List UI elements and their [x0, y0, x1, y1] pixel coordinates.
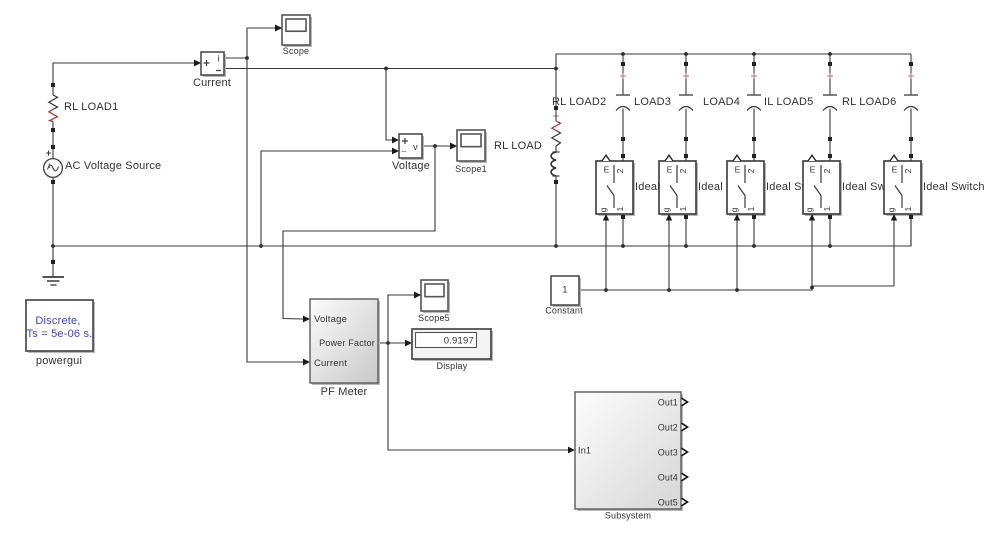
wire gate feed SW4	[811, 221, 813, 287]
node gate junction 4	[810, 286, 814, 290]
capacitor branch C2	[684, 52, 688, 56]
svg-text:Ideal Switch: Ideal Switch	[923, 181, 985, 193]
wire node down to Voltage + input	[386, 69, 393, 141]
wire v output down to PF Meter Voltage input	[283, 146, 435, 319]
ideal switch block SW2	[661, 163, 698, 216]
wire source-top to Current + input	[53, 63, 195, 83]
resistor RL LOAD1	[51, 83, 55, 87]
wire gate feed SW3	[736, 221, 738, 291]
svg-text:Scope: Scope	[283, 46, 310, 56]
svg-text:Voltage: Voltage	[392, 160, 430, 172]
svg-text:1: 1	[678, 206, 688, 211]
svg-text:Voltage: Voltage	[314, 314, 347, 325]
svg-text:LOAD3: LOAD3	[634, 96, 671, 108]
svg-text:IL LOAD5: IL LOAD5	[764, 96, 814, 108]
scope block Scope5	[423, 282, 450, 313]
svg-text:Display: Display	[437, 361, 468, 371]
svg-text:AC Voltage Source: AC Voltage Source	[65, 160, 161, 172]
wire PF output up to Scope5	[388, 295, 415, 343]
svg-text:Scope5: Scope5	[418, 313, 450, 323]
svg-text:2: 2	[678, 168, 688, 173]
wire PF Meter output to Display	[378, 342, 406, 344]
node ground junction	[51, 244, 55, 248]
svg-text:Out1: Out1	[658, 398, 678, 408]
wire Constant output gate bus	[579, 286, 894, 290]
wire Voltage - input to bottom bus	[261, 151, 399, 246]
svg-text:E: E	[604, 165, 610, 175]
svg-text:1: 1	[822, 206, 832, 211]
svg-text:Current: Current	[193, 77, 231, 89]
PF Meter block	[312, 301, 380, 385]
svg-text:Subsystem: Subsystem	[605, 511, 651, 521]
AC Voltage Source V1	[52, 132, 54, 145]
svg-text:E: E	[667, 165, 673, 175]
node voltage tap junction	[384, 67, 388, 71]
svg-text:Ts = 5e-06 s.: Ts = 5e-06 s.	[27, 328, 93, 340]
scope block Scope	[284, 17, 312, 47]
svg-text:RL LOAD2: RL LOAD2	[552, 96, 606, 108]
node RL LOAD2 top junction	[554, 67, 558, 71]
svg-text:Current: Current	[314, 358, 347, 369]
svg-text:1: 1	[562, 285, 567, 295]
wire main bottom bus	[53, 219, 911, 246]
wire top capacitor bus	[556, 54, 911, 69]
wire bus to ground stem	[52, 246, 54, 260]
wire node down to PF Meter Current input	[247, 58, 304, 362]
wire Voltage v output to Scope1	[422, 145, 451, 147]
svg-text:g: g	[729, 207, 739, 212]
wire Current i output to node	[224, 57, 247, 59]
svg-text:E: E	[892, 165, 898, 175]
ideal switch block SW4	[805, 163, 842, 216]
wire gate feed SW1	[605, 221, 607, 291]
svg-text:0.9197: 0.9197	[444, 336, 474, 347]
node i-split junction	[245, 56, 249, 60]
svg-text:g: g	[886, 207, 896, 212]
node bottom bus / voltage minus junction	[259, 244, 263, 248]
wire terminal SW2 to bus	[684, 215, 688, 219]
node gate junction x=606	[604, 288, 608, 292]
svg-text:In1: In1	[578, 446, 591, 456]
svg-text:RL LOAD: RL LOAD	[494, 140, 542, 152]
inductor of RL LOAD2	[553, 151, 560, 153]
ideal switch block SW3	[729, 163, 766, 216]
node v output junction	[433, 144, 437, 148]
wire terminal SW3 to bus	[752, 215, 756, 219]
svg-text:E: E	[735, 165, 741, 175]
wire Current minus to RL LOAD2 top node	[224, 68, 556, 70]
capacitor branch C3	[752, 52, 756, 56]
capacitor branch C4	[828, 52, 832, 56]
svg-text:i: i	[217, 54, 219, 64]
scope block Scope1	[459, 132, 487, 163]
wire gate feed SW2	[668, 221, 670, 291]
svg-text:RL LOAD1: RL LOAD1	[64, 101, 118, 113]
ground	[51, 260, 55, 264]
svg-text:Constant: Constant	[545, 306, 583, 316]
wire terminal SW4 to bus	[828, 215, 832, 219]
current measurement block U_Current	[203, 54, 226, 77]
svg-text:E: E	[810, 165, 816, 175]
wire terminal SW5 to bus	[909, 215, 913, 219]
ideal switch block SW5	[886, 163, 923, 216]
svg-text:1: 1	[903, 206, 913, 211]
svg-text:g: g	[804, 207, 814, 212]
svg-text:2: 2	[903, 168, 913, 173]
wire gate feed SW5	[893, 221, 895, 287]
svg-text:g: g	[661, 207, 671, 212]
ideal switch block SW1	[598, 163, 635, 216]
svg-text:LOAD4: LOAD4	[703, 96, 740, 108]
capacitor branch C1	[621, 52, 625, 56]
svg-text:2: 2	[746, 168, 756, 173]
svg-text:PF Meter: PF Meter	[321, 386, 368, 398]
RL branch RL LOAD2	[555, 69, 557, 107]
svg-text:Out5: Out5	[658, 498, 678, 508]
wire AC source bottom to bus	[52, 184, 54, 246]
voltage measurement block U_Voltage	[401, 136, 424, 160]
node gate junction x=669	[667, 288, 671, 292]
wire node up to Scope input	[247, 28, 276, 58]
svg-text:v: v	[413, 142, 418, 152]
capacitor branch C5	[910, 54, 912, 62]
svg-text:powergui: powergui	[36, 355, 82, 367]
svg-text:Scope1: Scope1	[455, 164, 487, 174]
svg-text:Out4: Out4	[658, 473, 678, 483]
constant block value 1	[553, 278, 581, 307]
svg-text:RL LOAD6: RL LOAD6	[842, 96, 896, 108]
svg-text:2: 2	[822, 168, 832, 173]
wire terminal SW1 to bus	[621, 215, 625, 219]
wire PF output down to Subsystem In1	[388, 343, 569, 450]
svg-text:Power Factor: Power Factor	[319, 338, 375, 348]
subsystem block	[577, 394, 683, 511]
node RL LOAD2 bottom junction	[554, 244, 558, 248]
powergui block	[28, 302, 95, 353]
svg-text:Out3: Out3	[658, 448, 678, 458]
svg-text:g: g	[598, 207, 608, 212]
svg-text:1: 1	[615, 206, 625, 211]
svg-text:Discrete,: Discrete,	[35, 315, 80, 327]
svg-text:2: 2	[615, 168, 625, 173]
svg-text:Out2: Out2	[658, 423, 678, 433]
display block Display	[414, 331, 493, 361]
node PF output junction	[386, 341, 390, 345]
svg-text:1: 1	[746, 206, 756, 211]
node gate junction x=737	[735, 288, 739, 292]
